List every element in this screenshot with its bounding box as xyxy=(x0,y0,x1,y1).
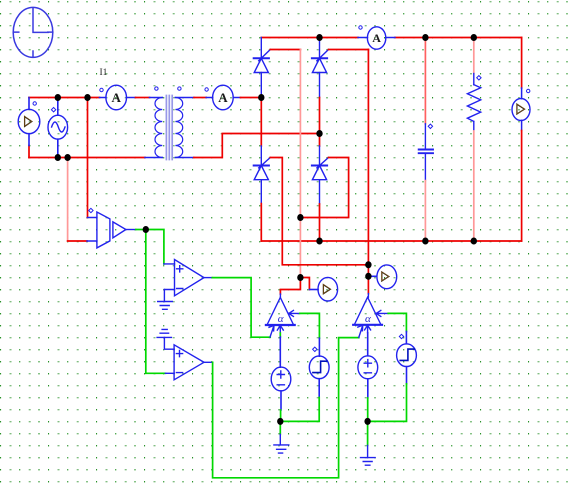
transformer TX1 xyxy=(145,87,194,158)
svg-text:α: α xyxy=(365,313,371,325)
node sine bottom xyxy=(55,154,61,161)
wire sensor plus feed xyxy=(87,98,89,218)
svg-text:α: α xyxy=(278,313,284,325)
wire T4 anode to bottom rail xyxy=(319,204,321,241)
wire bridge column B middle xyxy=(319,98,321,147)
wire resistor branch top xyxy=(473,38,475,74)
wire node1 to ground xyxy=(279,421,281,434)
probe VP1 xyxy=(318,277,338,301)
node bridge column B bottom xyxy=(316,237,322,244)
node control ground 1 xyxy=(277,418,283,425)
wire step1 bottom to node xyxy=(280,398,319,422)
ground G1 xyxy=(158,290,173,310)
node bridge column A ac input xyxy=(258,94,264,101)
transformer core xyxy=(166,96,172,160)
wire voltmeter V1 bottom xyxy=(28,146,30,158)
wire resistor branch bottom xyxy=(473,131,475,241)
svg-text:A: A xyxy=(218,90,228,105)
wire node to op-amp U1 plus xyxy=(146,230,164,264)
node sensor plus tap xyxy=(84,94,90,101)
wire alpha1 node xyxy=(280,278,309,295)
sine source VS1 xyxy=(48,98,68,158)
voltmeter V1 xyxy=(18,98,40,146)
ammeter I1 xyxy=(100,85,136,110)
wire sensor minus feed horizontal xyxy=(68,240,87,242)
wire T2/T3 gate drop xyxy=(367,50,369,265)
probe VP2 xyxy=(377,265,397,289)
resistor R1 xyxy=(467,74,481,132)
wire voltmeter V2 branch top xyxy=(521,38,523,89)
thyristor T4 xyxy=(312,146,329,204)
thyristor T1 xyxy=(254,38,271,98)
op-amp U2 xyxy=(165,345,212,380)
node sensor minus tap xyxy=(64,154,70,161)
reference rail symbol above U2 xyxy=(157,329,174,349)
svg-text:A: A xyxy=(112,90,122,105)
ammeter A2 xyxy=(205,85,241,110)
node T4 gate joint xyxy=(297,214,303,221)
wire top source rail xyxy=(29,97,100,99)
wire alpha2 enable to step2 xyxy=(388,313,406,331)
wire probe VP2 lead xyxy=(368,275,376,277)
ground G2 xyxy=(274,434,289,453)
clock icon xyxy=(13,7,53,57)
wire dc2 bottom to node xyxy=(367,398,369,421)
wire sensor minus feed vertical xyxy=(67,158,69,242)
wire bridge top rail xyxy=(261,37,358,39)
wire transformer to ammeter A2 xyxy=(194,97,206,99)
voltage sensor VSEN1 xyxy=(87,208,136,248)
wire alpha1 alpha-input lead xyxy=(279,333,281,337)
wire node2 to ground xyxy=(367,421,369,445)
wire alpha2 gate node xyxy=(367,265,369,294)
op-amp U1 xyxy=(164,260,212,296)
step source VST1 xyxy=(309,338,329,397)
wire transformer secondary bottom jog xyxy=(194,134,320,158)
capacitor C1 xyxy=(419,124,433,181)
node resistor bottom xyxy=(471,237,477,244)
node resistor top xyxy=(471,34,477,41)
alpha controller AC1 xyxy=(266,294,300,337)
wire alpha1 enable to step1 xyxy=(300,313,320,338)
node capacitor top xyxy=(422,34,428,41)
node bridge column B top xyxy=(316,34,322,41)
wire T2 gate xyxy=(329,49,369,51)
node control ground 2 xyxy=(364,418,370,425)
wire capacitor branch top xyxy=(424,38,426,124)
wire T3 gate xyxy=(270,158,368,265)
thyristor T3 xyxy=(254,146,271,204)
wire probe VP1 lead xyxy=(309,289,318,291)
wire node to op-amp U2 minus xyxy=(146,230,166,374)
wire step2 bottom to node xyxy=(368,384,407,422)
dc source VDC1 xyxy=(271,337,291,410)
wire capacitor branch bottom xyxy=(424,181,426,241)
wire sensor output to node xyxy=(136,229,146,231)
node probe VP2 tap xyxy=(365,273,371,280)
voltmeter V2 xyxy=(512,88,530,131)
node T3 gate joint xyxy=(365,261,371,268)
node capacitor bottom xyxy=(422,237,428,244)
wire top rail right of ammeter A3 xyxy=(395,37,522,39)
alpha controller AC2 xyxy=(353,294,388,338)
wire bottom source rail xyxy=(29,157,145,159)
wire op-amp U2 output to alpha2 xyxy=(213,338,359,478)
wire op-amp U1 output to alpha1 xyxy=(212,278,270,338)
wire T1 gate xyxy=(270,49,300,51)
wire bridge column A middle xyxy=(260,98,262,147)
node bridge column B ac input xyxy=(316,130,322,137)
node sensor output xyxy=(143,226,149,233)
node sine top xyxy=(55,94,61,101)
step source VST2 xyxy=(397,332,417,384)
svg-text:A: A xyxy=(372,31,381,45)
wire T3 anode to bottom rail xyxy=(260,204,262,241)
thyristor T2 xyxy=(312,38,329,98)
ground G3 xyxy=(361,445,376,465)
dc source VDC2 xyxy=(358,333,378,398)
wire ammeter I1 to transformer xyxy=(136,97,150,99)
wire dc1 bottom to node xyxy=(280,410,282,421)
wire bridge bottom rail xyxy=(261,240,521,242)
wire ammeter A2 to bridge xyxy=(241,97,262,99)
wire T4 gate xyxy=(300,158,348,218)
svg-text:I1: I1 xyxy=(100,68,108,78)
node alpha1 output xyxy=(297,274,303,281)
wire voltmeter V2 branch bottom xyxy=(521,131,523,242)
wire T1/T4 gate drop xyxy=(299,50,301,278)
ammeter A3 xyxy=(358,26,395,49)
